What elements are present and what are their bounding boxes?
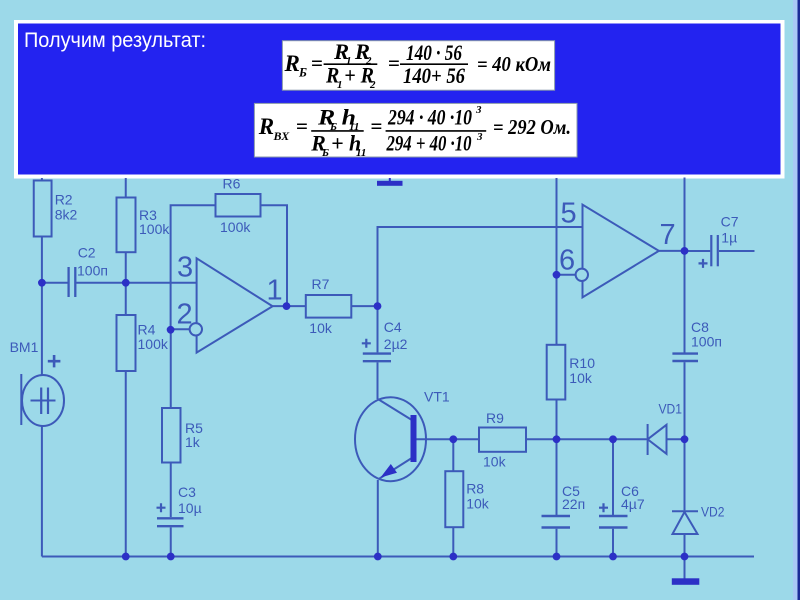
- wire C5 column: [556, 439, 558, 556]
- capacitor C2: [69, 245, 108, 298]
- svg-text:R6: R6: [223, 176, 241, 192]
- formula 2 fraction RБ h11: [310, 105, 366, 160]
- svg-text:VD2: VD2: [701, 504, 725, 520]
- svg-text:6: 6: [559, 245, 575, 277]
- wire junction down to C4: [377, 306, 379, 352]
- wire R10 to row junction: [556, 400, 558, 440]
- wire transistor emitter to rail: [377, 480, 379, 557]
- wire input6 column from top: [556, 178, 558, 345]
- wire inverting input stub op-amp 1: [171, 328, 190, 330]
- wire output column up to banner: [684, 178, 686, 251]
- resistor R2: [34, 181, 78, 237]
- wire R7 to junction: [351, 305, 377, 307]
- svg-text:2: 2: [369, 79, 376, 91]
- wire output node to C7: [685, 250, 711, 252]
- svg-text:4µ7: 4µ7: [621, 496, 645, 512]
- banner blue panel: [18, 24, 781, 175]
- svg-text:VD1: VD1: [659, 401, 683, 417]
- right page border light stripe: [793, 0, 798, 600]
- wire op-amp1 output to R7: [273, 305, 306, 307]
- resistor R4: [117, 315, 169, 371]
- right page border dark stripe: [798, 0, 800, 600]
- svg-text:1k: 1k: [185, 434, 201, 450]
- wire VD1 node down to VD2: [684, 439, 686, 510]
- diode VD2: [672, 504, 725, 535]
- node rail C3: [167, 553, 175, 561]
- svg-text:1: 1: [267, 275, 283, 307]
- node rail C6: [609, 553, 617, 561]
- wire R3 R4 column: [125, 178, 127, 557]
- node input 6 junction: [553, 271, 561, 279]
- resistor R7: [306, 276, 352, 336]
- wire VD2 to rail: [684, 535, 686, 557]
- wire R8 bottom to rail: [452, 527, 454, 556]
- wire C2 row right segment to op-amp input 3: [76, 282, 196, 284]
- transistor VT1: [355, 389, 450, 482]
- formula 1 R_B: [284, 51, 323, 80]
- svg-text:11: 11: [356, 147, 366, 159]
- svg-text:C3: C3: [178, 484, 196, 500]
- op-amp U1: [177, 252, 283, 353]
- svg-text:10k: 10k: [466, 496, 490, 512]
- svg-text:=: =: [311, 51, 323, 75]
- node rail emitter: [374, 553, 382, 561]
- wire ground stub: [684, 557, 686, 579]
- wire C8 to VD1 node: [684, 362, 686, 439]
- resistor R9: [479, 410, 526, 470]
- svg-text:3: 3: [476, 131, 483, 143]
- svg-text:294 + 40 ·10: 294 + 40 ·10: [386, 131, 472, 156]
- capacitor C5: [542, 483, 586, 528]
- capacitor C6: [599, 483, 645, 528]
- wire op-amp2 output stub: [659, 250, 685, 252]
- diode VD1: [648, 401, 683, 456]
- svg-text:140 · 56: 140 · 56: [406, 40, 462, 65]
- op-amp U2: [559, 198, 676, 298]
- svg-text:100k: 100k: [220, 219, 251, 235]
- svg-text:8k2: 8k2: [55, 207, 78, 223]
- node R10-C5 junction: [553, 435, 561, 443]
- node rail VD2: [681, 553, 689, 561]
- wire junction up and right to op-amp2 input 5: [378, 227, 583, 306]
- svg-text:2: 2: [177, 299, 193, 331]
- svg-text:R7: R7: [312, 276, 330, 292]
- wire feedback from inverting input up to R6: [171, 205, 216, 330]
- node R3-R4 junction: [122, 279, 130, 287]
- svg-text:ВХ: ВХ: [273, 129, 291, 143]
- banner white frame: [14, 20, 785, 179]
- wire transistor base to R9: [417, 438, 480, 440]
- svg-text:C7: C7: [721, 214, 739, 230]
- node rail R8: [449, 553, 457, 561]
- node VD1 cathode junction: [681, 435, 689, 443]
- formula 2 fraction 294*40*10^3: [371, 104, 487, 156]
- resistor R3: [117, 198, 171, 253]
- capacitor C3: [157, 484, 202, 526]
- svg-text:=: =: [371, 114, 383, 138]
- wire output column down to C8: [684, 251, 686, 353]
- svg-text:R2: R2: [55, 192, 73, 208]
- svg-text:Получим результат:: Получим результат:: [24, 29, 206, 52]
- resistor R8: [445, 471, 489, 527]
- svg-text:1µ: 1µ: [721, 230, 737, 246]
- svg-text:22п: 22п: [562, 496, 585, 512]
- svg-text:10k: 10k: [569, 370, 593, 386]
- ground: [672, 578, 700, 585]
- node rail C5: [553, 553, 561, 561]
- svg-text:R + R: R + R: [325, 63, 374, 88]
- capacitor C8: [672, 319, 722, 361]
- svg-text:3: 3: [177, 252, 193, 284]
- svg-text:C4: C4: [384, 319, 402, 335]
- resistor R10: [547, 345, 595, 400]
- resistor R6: [216, 176, 261, 236]
- wire R5 C3 column: [170, 330, 172, 557]
- svg-text:=: =: [388, 51, 400, 75]
- svg-text:=: =: [296, 114, 308, 138]
- node C6 junction: [609, 435, 617, 443]
- formula 1 fraction R1R2 over R1+R2: [324, 39, 378, 91]
- wire C4 to transistor collector: [377, 362, 379, 399]
- wire C6 junction to VD1: [613, 438, 647, 440]
- node op-amp1 output: [283, 302, 291, 310]
- node op-amp2 output: [681, 247, 689, 255]
- svg-text:R8: R8: [466, 480, 484, 496]
- node inverting input 2 junction: [167, 326, 175, 334]
- wire R8 top: [452, 439, 454, 471]
- svg-text:R: R: [284, 51, 300, 76]
- wire bottom ground rail: [42, 556, 754, 558]
- svg-text:100k: 100k: [139, 221, 170, 237]
- svg-text:VT1: VT1: [424, 389, 450, 405]
- svg-text:10k: 10k: [309, 320, 333, 336]
- svg-text:10µ: 10µ: [178, 500, 202, 516]
- wire BM1 to bottom rail: [41, 426, 43, 557]
- capacitor C4: [362, 319, 408, 361]
- svg-text:BM1: BM1: [10, 339, 39, 355]
- node rail R4: [122, 553, 130, 561]
- capacitor C7: [699, 214, 739, 268]
- wire R9 to C5 junction: [526, 438, 613, 440]
- formula box 1: [282, 41, 554, 90]
- formula 1 fraction 140*56: [388, 40, 468, 88]
- svg-text:100k: 100k: [138, 336, 169, 352]
- svg-text:5: 5: [561, 198, 577, 230]
- svg-text:R10: R10: [569, 355, 595, 371]
- svg-text:7: 7: [660, 219, 676, 251]
- wire inverting input stub op-amp 2: [557, 274, 577, 276]
- formula 2 R_BX: [258, 114, 308, 143]
- wire C7 to right: [719, 250, 755, 252]
- svg-text:100п: 100п: [77, 263, 108, 279]
- wire VD1 to node: [668, 438, 685, 440]
- resistor R5: [162, 408, 203, 463]
- svg-text:1: 1: [337, 79, 343, 91]
- node C2-BM1 junction: [38, 279, 46, 287]
- svg-text:Б: Б: [321, 147, 329, 159]
- wire C6 column: [612, 439, 614, 556]
- svg-text:R + h: R + h: [310, 131, 361, 156]
- svg-text:2µ2: 2µ2: [384, 336, 408, 352]
- svg-text:100п: 100п: [691, 334, 722, 350]
- svg-text:= 40 кОм: = 40 кОм: [477, 52, 551, 76]
- microphone BM1: [10, 339, 64, 426]
- formula box 2: [254, 103, 577, 157]
- power supply bar: [377, 178, 403, 186]
- svg-text:Б: Б: [298, 66, 307, 80]
- node transistor base junction: [449, 435, 457, 443]
- svg-text:10k: 10k: [483, 454, 507, 470]
- svg-text:140+ 56: 140+ 56: [403, 63, 465, 88]
- svg-text:= 292 Ом.: = 292 Ом.: [493, 115, 571, 139]
- svg-text:R: R: [258, 114, 274, 139]
- node R7 output junction: [374, 302, 382, 310]
- wire C2 row left segment: [42, 282, 68, 284]
- wire left column top (R2 branch): [41, 178, 43, 375]
- wire R6 output side down to op-amp output node: [261, 205, 288, 306]
- svg-text:R9: R9: [486, 410, 504, 426]
- svg-text:C2: C2: [78, 245, 96, 261]
- svg-text:3: 3: [475, 104, 482, 116]
- svg-text:294 · 40 ·10: 294 · 40 ·10: [387, 105, 472, 130]
